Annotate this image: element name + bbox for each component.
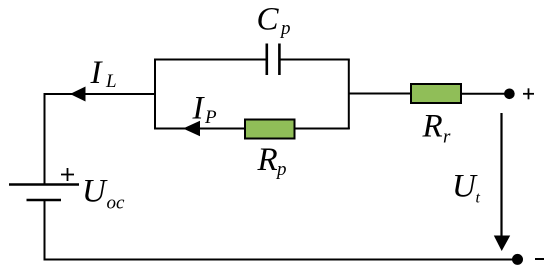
wire: parallel network right edge bbox=[348, 60, 350, 130]
label U_t bbox=[452, 169, 481, 207]
wire: bottom rail bbox=[44, 259, 518, 261]
label R_p bbox=[257, 142, 287, 180]
wire: top branch left segment (to C_p) bbox=[154, 59, 267, 61]
svg-text:r: r bbox=[443, 127, 451, 148]
wire: R_r to positive terminal bbox=[461, 93, 509, 95]
svg-text:U: U bbox=[82, 174, 108, 210]
wire: left vertical (to battery positive plate) bbox=[44, 93, 46, 185]
wire: bottom branch (through R_p) bbox=[154, 128, 350, 130]
battery + polarity mark bbox=[61, 168, 74, 181]
current arrow I_P bbox=[183, 121, 200, 136]
svg-text:oc: oc bbox=[107, 193, 126, 214]
capacitor C_p bbox=[267, 44, 280, 76]
wire: parallel network to R_r bbox=[349, 93, 411, 95]
label + (positive terminal) bbox=[523, 88, 534, 99]
voltage arrow U_t : shaft bbox=[500, 113, 502, 237]
label R_r bbox=[422, 109, 452, 148]
wire: battery negative to bottom rail bbox=[44, 200, 46, 260]
svg-text:I: I bbox=[192, 91, 206, 127]
resistor R_r bbox=[411, 84, 461, 103]
resistor R_p bbox=[245, 120, 295, 139]
svg-text:p: p bbox=[279, 18, 291, 39]
wire: top-left horizontal segment (load branch) bbox=[45, 93, 156, 95]
svg-text:U: U bbox=[452, 169, 478, 205]
wire: parallel network left edge bbox=[154, 60, 156, 130]
battery U_oc : long positive plate bbox=[9, 183, 79, 185]
svg-text:R: R bbox=[422, 109, 443, 145]
svg-text:p: p bbox=[275, 159, 287, 180]
battery U_oc : short negative plate bbox=[27, 199, 62, 201]
current arrow I_L bbox=[70, 87, 86, 102]
voltage arrow U_t : head bbox=[494, 236, 510, 252]
svg-text:L: L bbox=[105, 71, 117, 92]
label - (negative terminal) bbox=[535, 258, 544, 260]
svg-text:I: I bbox=[90, 55, 104, 91]
svg-text:t: t bbox=[476, 190, 481, 207]
label C_p bbox=[257, 2, 291, 40]
svg-text:R: R bbox=[257, 142, 278, 178]
node: negative output terminal bbox=[512, 254, 523, 265]
svg-text:P: P bbox=[204, 107, 217, 128]
label I_P bbox=[192, 91, 218, 129]
label U_oc bbox=[82, 174, 125, 214]
wire: top branch right segment (from C_p) bbox=[279, 59, 349, 61]
svg-text:C: C bbox=[257, 2, 280, 38]
node: positive output terminal bbox=[504, 89, 515, 100]
label I_L bbox=[90, 55, 117, 92]
